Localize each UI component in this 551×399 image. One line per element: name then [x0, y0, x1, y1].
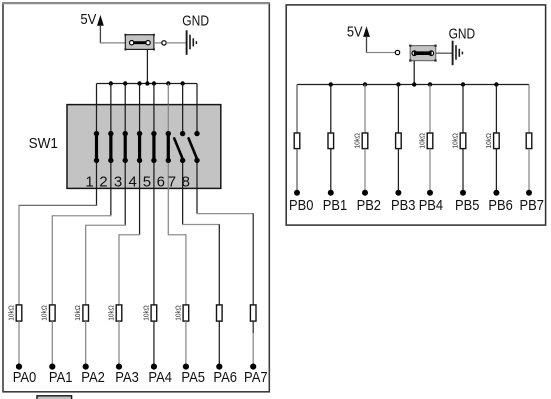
svg-text:10kΩ: 10kΩ: [108, 305, 115, 321]
SW1 switch 3 top contact dot: [123, 131, 128, 136]
svg-text:PB0: PB0: [289, 198, 313, 214]
wire column PA1 to resistor: [51, 216, 53, 305]
DIP switch SW1 body: [67, 105, 221, 189]
jumper J1 body (5V select, closed): [125, 35, 154, 50]
wire SW1 pin 8 stub below switch: [196, 188, 198, 213]
wire from 5V arrow down: [99, 26, 101, 43]
wire resistor to PA7 pad: [252, 321, 254, 333]
svg-text:PA0: PA0: [13, 370, 37, 386]
SW1 switch 7 open lever: [174, 138, 183, 159]
svg-text:PB7: PB7: [520, 198, 544, 214]
svg-text:PB1: PB1: [323, 198, 347, 214]
resistor 10k on PB0: [294, 133, 300, 149]
svg-text:PB6: PB6: [488, 198, 512, 214]
svg-text:10kΩ: 10kΩ: [42, 305, 49, 321]
node PA5 terminal dot: [183, 364, 189, 370]
junction dot bus / PB6 column: [494, 82, 498, 86]
left panel top border highlight: [2, 2, 269, 4]
node PA4 terminal dot: [151, 364, 157, 370]
wire resistor to PA5 pad: [185, 321, 187, 367]
wire SW1 switch 1 bottom lead: [96, 160, 98, 188]
svg-text:6: 6: [157, 174, 165, 191]
wire SW1 switch 7 bottom lead: [182, 160, 184, 188]
wire SW1 switch 2 bottom lead: [110, 160, 112, 188]
node PA1 terminal dot: [49, 364, 55, 370]
wire resistor to PA4 pad: [153, 321, 155, 367]
wire SW1 switch 2 top lead: [110, 105, 112, 134]
junction dot bus / PB5 column: [461, 82, 465, 86]
svg-text:10kΩ: 10kΩ: [486, 133, 493, 149]
wire bus to resistor PB2: [364, 85, 366, 134]
wire SW1 switch 6 bottom lead: [167, 160, 169, 188]
wire SW1 switch 8 top lead: [196, 105, 198, 134]
wire resistor to PA3 pad: [118, 321, 120, 367]
node PB0 terminal dot: [294, 190, 300, 196]
resistor 10k on PB7: [526, 133, 532, 149]
SW1 switch 3 closed lever: [124, 134, 127, 161]
junction dot bus / SW1 pin 3 wire: [123, 81, 127, 85]
wire bus to resistor PB6: [495, 85, 497, 134]
open post pin (left, unconnected): [162, 41, 166, 45]
wire resistor to PA2 pad: [85, 321, 87, 367]
SW1 switch 1 top contact dot: [94, 131, 99, 136]
wire bus to SW1 pin 3: [124, 84, 126, 105]
resistor 10k pull-up on PA7: [250, 305, 256, 321]
junction dot bus / SW1 pin 5 wire: [152, 81, 156, 85]
svg-text:8: 8: [182, 174, 190, 191]
jumper J2 body (GND select, closed): [410, 46, 436, 61]
wire jog pin 3 to column PA2: [85, 224, 126, 226]
wire jog pin 2 to column PA1: [52, 215, 112, 217]
node PA2 terminal dot: [83, 364, 89, 370]
resistor 10k on PB3: [396, 133, 402, 149]
SW1 switch 3 bottom contact dot: [123, 158, 128, 163]
SW1 switch 8 open lever: [189, 138, 198, 159]
svg-text:5V: 5V: [347, 25, 363, 41]
SW1 switch 5 closed lever: [152, 134, 155, 161]
wire SW1 switch 5 bottom lead: [153, 160, 155, 188]
wire SW1 switch 4 top lead: [139, 105, 141, 134]
wire resistor to PB1 pad: [330, 149, 332, 193]
SW1 switch 4 top contact dot: [137, 131, 142, 136]
junction dot bus feed (right): [412, 82, 416, 86]
wire from 5V arrow down (right): [366, 37, 368, 53]
resistor 10k on PB5: [460, 133, 466, 149]
wire SW1 switch 6 top lead: [167, 105, 169, 134]
wire SW1 pin 2 stub below switch: [110, 188, 112, 215]
wire resistor to PA6 pad: [218, 321, 220, 367]
node PB4 terminal dot: [427, 190, 433, 196]
SW1 switch 6 bottom contact dot: [166, 158, 171, 163]
junction dot bus / SW1 pin 4 wire: [137, 81, 141, 85]
svg-text:PB3: PB3: [391, 198, 415, 214]
svg-text:10kΩ: 10kΩ: [419, 133, 426, 149]
wire bus to SW1 pin 4: [139, 84, 141, 105]
node PA7 terminal dot: [250, 364, 256, 370]
wire resistor to PB2 pad: [364, 149, 366, 193]
SW1 switch 5 top contact dot: [151, 131, 156, 136]
wire bus to resistor PB3: [397, 85, 399, 134]
wire SW1 switch 3 top lead: [124, 105, 126, 134]
svg-text:PA4: PA4: [148, 370, 172, 386]
wire SW1 pin 6 stub below switch: [167, 188, 169, 234]
svg-text:4: 4: [129, 174, 137, 191]
junction dot bus / SW1 pin 2 wire: [109, 81, 113, 85]
SW1 switch 6 closed lever: [167, 134, 170, 161]
wire jumper J2 to ground: [436, 52, 452, 54]
wire SW1 switch 1 top lead: [96, 105, 98, 134]
svg-text:PA5: PA5: [181, 370, 205, 386]
wire open post to ground: [166, 42, 186, 44]
wire bus to SW1 pin 1: [96, 84, 98, 105]
open post pin (right, unconnected): [395, 50, 399, 54]
junction dot bus / PB2 column: [363, 82, 367, 86]
jumper J2 body corner handles: [409, 45, 436, 62]
junction dot bus feed (left): [145, 81, 149, 85]
svg-text:PA6: PA6: [213, 370, 237, 386]
ground symbol (right): [453, 41, 463, 65]
wire resistor to PB0 pad: [296, 149, 298, 193]
resistor 10k pull-up on PA3: [116, 305, 122, 321]
left panel border (port A sheet frame): [3, 3, 269, 392]
jumper J1 right post pin 2: [146, 41, 150, 45]
node PB7 terminal dot: [526, 190, 532, 196]
wire SW1 pin 3 stub below switch: [124, 188, 126, 225]
wire jog pin 8 to column PA7: [196, 213, 253, 215]
svg-text:10kΩ: 10kΩ: [75, 305, 82, 321]
resistor 10k pull-up on PA1: [50, 305, 56, 321]
wire bus to resistor PB5: [462, 85, 464, 134]
svg-text:GND: GND: [182, 13, 209, 30]
svg-text:PB4: PB4: [419, 198, 443, 214]
SW1 switch 8 top contact dot: [194, 131, 199, 136]
resistor bus wire (right): [297, 84, 529, 86]
svg-text:PB5: PB5: [455, 198, 479, 214]
wire SW1 pin 7 stub below switch: [182, 188, 184, 224]
wire resistor to PB5 pad: [462, 149, 464, 193]
jumper J1 body corner handles: [124, 34, 154, 51]
node PA0 terminal dot: [16, 364, 22, 370]
svg-text:GND: GND: [449, 25, 476, 42]
svg-text:PA2: PA2: [81, 370, 105, 386]
SW1 switch 1 closed lever: [95, 134, 98, 161]
wire 5V to jumper J1: [100, 42, 126, 44]
svg-text:10kΩ: 10kΩ: [8, 305, 15, 321]
svg-text:5: 5: [143, 174, 151, 191]
wire jumper J1 to supply bus: [146, 49, 148, 83]
wire column PA5 to resistor: [185, 235, 187, 305]
wire SW1 switch 5 top lead: [153, 105, 155, 134]
wire bus to SW1 pin 7: [182, 84, 184, 105]
svg-text:5V: 5V: [80, 12, 96, 28]
wire bus to resistor PB0: [296, 85, 298, 134]
wire SW1 pin 5 stub below switch: [153, 188, 155, 240]
wire bus to resistor PB4: [429, 85, 431, 134]
partially cut component box at bottom edge: [37, 396, 72, 399]
ground symbol (left): [187, 30, 197, 55]
wire resistor to PB3 pad: [397, 149, 399, 193]
wire jumper J1 to open post: [154, 42, 162, 44]
wire jog pin 7 to column PA6: [182, 224, 220, 226]
SW1 switch 8 bottom contact dot: [194, 158, 199, 163]
resistor 10k pull-up on PA6: [217, 305, 223, 321]
wire column PA6 to resistor: [218, 225, 220, 305]
SW1 switch 4 bottom contact dot: [137, 158, 142, 163]
resistor 10k on PB2: [362, 133, 368, 149]
junction dot bus / SW1 pin 6 wire: [166, 81, 170, 85]
supply bus wire (left): [97, 83, 197, 85]
wire SW1 switch 4 bottom lead: [139, 160, 141, 188]
resistor 10k pull-up on PA4: [151, 305, 157, 321]
svg-text:10kΩ: 10kΩ: [354, 133, 361, 149]
svg-text:2: 2: [99, 174, 107, 191]
svg-text:10kΩ: 10kΩ: [175, 305, 182, 321]
wire SW1 switch 3 bottom lead: [124, 160, 126, 188]
wire SW1 pin 4 stub below switch: [139, 188, 141, 234]
wire column PA0 to resistor: [18, 205, 20, 305]
wire jog pin 1 to column PA0: [18, 204, 97, 206]
SW1 switch 2 bottom contact dot: [108, 158, 113, 163]
node PB5 terminal dot: [460, 190, 466, 196]
resistor 10k on PB4: [427, 133, 433, 149]
wire bus to SW1 pin 2: [110, 84, 112, 105]
wire resistor to PB7 pad: [528, 149, 530, 193]
svg-text:PA7: PA7: [244, 370, 268, 386]
wire bus to resistor PB7: [528, 85, 530, 134]
svg-text:PB2: PB2: [357, 198, 381, 214]
wire resistor to PA0 pad: [18, 321, 20, 367]
SW1 switch 2 top contact dot: [108, 131, 113, 136]
wire jog pin 6 to column PA5: [168, 234, 187, 236]
wire SW1 switch 8 bottom lead: [196, 160, 198, 188]
svg-text:1: 1: [85, 174, 93, 191]
node PB2 terminal dot: [362, 190, 368, 196]
svg-text:10kΩ: 10kΩ: [452, 133, 459, 149]
jumper J1 shorting bar: [133, 41, 146, 44]
wire bus to SW1 pin 8: [196, 84, 198, 105]
resistor 10k pull-up on PA0: [16, 305, 22, 321]
node PB6 terminal dot: [493, 190, 499, 196]
wire bus to SW1 pin 6: [167, 84, 169, 105]
node PA3 terminal dot: [116, 364, 122, 370]
jumper J2 shorting bar: [414, 51, 432, 55]
svg-text:PA3: PA3: [115, 370, 139, 386]
SW1 switch 6 top contact dot: [166, 131, 171, 136]
wire jog pin 4 to column PA3: [118, 234, 140, 236]
5V supply arrow symbol (left): [97, 15, 104, 26]
junction dot bus / SW1 pin 7 wire: [180, 81, 184, 85]
junction dot bus / PB3 column: [396, 82, 400, 86]
resistor 10k on PB1: [328, 133, 334, 149]
wire jumper J2 to resistor bus: [413, 61, 415, 85]
node PA6 terminal dot: [216, 364, 222, 370]
wire resistor to PB4 pad: [429, 149, 431, 193]
svg-text:SW1: SW1: [29, 135, 58, 152]
wire column PA3 to resistor: [118, 235, 120, 305]
SW1 switch 7 bottom contact dot: [180, 158, 185, 163]
wire resistor to PA1 pad: [51, 321, 53, 367]
wire bus to resistor PB1: [330, 85, 332, 134]
resistor 10k pull-up on PA2: [83, 305, 89, 321]
wire 5V to open post (right): [366, 52, 395, 54]
wire column PA7 to resistor: [252, 214, 254, 305]
wire SW1 switch 7 top lead: [182, 105, 184, 134]
svg-text:10kΩ: 10kΩ: [143, 305, 150, 321]
svg-text:3: 3: [114, 174, 122, 191]
svg-text:7: 7: [168, 174, 176, 191]
wire column PA2 to resistor: [85, 225, 87, 305]
wire SW1 pin 1 stub below switch: [96, 188, 98, 205]
SW1 switch 1 bottom contact dot: [94, 158, 99, 163]
jumper J2 left post pin 1: [412, 51, 417, 56]
SW1 switch 7 top contact dot: [180, 131, 185, 136]
SW1 switch 4 closed lever: [138, 134, 141, 161]
node PB1 terminal dot: [328, 190, 334, 196]
SW1 switch 5 bottom contact dot: [151, 158, 156, 163]
5V supply arrow symbol (right): [363, 26, 370, 37]
SW1 switch 2 closed lever: [109, 134, 112, 161]
jumper J1 left post pin 1: [130, 41, 134, 45]
wire column PA4 to resistor: [153, 240, 155, 305]
junction dot bus / PB1 column: [329, 82, 333, 86]
wire bus to SW1 pin 5: [153, 84, 155, 105]
node PB3 terminal dot: [395, 190, 401, 196]
resistor 10k pull-up on PA5: [183, 305, 189, 321]
right panel border (port B sheet frame): [286, 5, 545, 225]
jumper J2 right post pin 2: [429, 51, 434, 56]
svg-text:PA1: PA1: [49, 370, 73, 386]
junction dot bus / PB4 column: [428, 82, 432, 86]
resistor 10k on PB6: [494, 133, 500, 149]
wire resistor to PB6 pad: [495, 149, 497, 193]
